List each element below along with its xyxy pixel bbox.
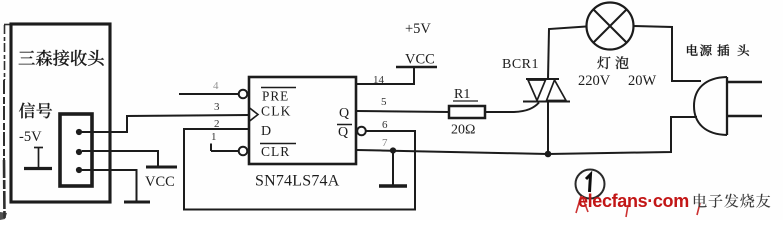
svg-text:elecfans·com: elecfans·com <box>578 191 689 211</box>
svg-text:-5V: -5V <box>19 129 42 145</box>
svg-text:Q: Q <box>339 106 349 121</box>
label 三森接收头 <box>19 50 104 66</box>
wire: CLR stub pin 1 <box>211 144 239 152</box>
connector pin 3 junction <box>76 167 82 173</box>
watermark stamp circle <box>576 170 605 199</box>
wire: connector pin3 to ground bar <box>82 170 137 201</box>
wire: VCC pin 14 <box>357 68 414 85</box>
label 灯泡 <box>597 56 628 69</box>
label 信号 (signal) <box>19 103 52 119</box>
svg-text:+5V: +5V <box>405 21 431 37</box>
connector pin 2 junction <box>76 149 82 155</box>
svg-text:PRE: PRE <box>262 89 289 104</box>
svg-text:CLK: CLK <box>261 104 292 119</box>
svg-text:1: 1 <box>211 131 217 143</box>
node: pin7 ground junction <box>390 147 396 153</box>
U1 PRE input label (active low) <box>261 88 296 104</box>
svg-text:VCC: VCC <box>145 174 175 190</box>
wire: R1 to triac gate <box>485 103 539 113</box>
resistor R1 label <box>453 87 478 102</box>
node: triac MT1 junction <box>545 151 552 158</box>
ground bar (connector side) <box>124 201 150 204</box>
wire: triac MT1 down to power rail <box>547 102 549 155</box>
svg-text:D: D <box>261 124 271 139</box>
U1 CLR input label (active low) <box>260 144 296 160</box>
connector J1 (3-pin receiver output) <box>60 114 92 186</box>
svg-text:20Ω: 20Ω <box>451 123 475 138</box>
wire: GND pin7 run to triac MT1 <box>357 150 548 154</box>
svg-text:4: 4 <box>213 80 219 92</box>
svg-text:5: 5 <box>381 96 387 108</box>
svg-text:7: 7 <box>382 137 388 149</box>
op IC U1 SN74LS74A body <box>249 77 356 164</box>
svg-text:VCC: VCC <box>405 52 435 68</box>
U1 CLR inversion bubble pin 1 <box>239 147 248 156</box>
svg-text:3: 3 <box>214 101 220 113</box>
-5V supply symbol <box>24 147 52 169</box>
svg-text:14: 14 <box>373 74 385 86</box>
wire: PRE stub pin 4 <box>179 93 239 95</box>
resistor R1 body <box>449 106 485 118</box>
svg-text:20W: 20W <box>628 73 657 89</box>
wire: connector pin2 to VCC symbol <box>82 151 158 166</box>
label 220V 20W <box>578 73 657 89</box>
svg-text:2: 2 <box>214 118 220 130</box>
U1 PRE inversion bubble pin 4 <box>239 90 248 99</box>
watermark red scribble <box>576 196 700 217</box>
triac BCR1 symbol <box>523 79 570 102</box>
wire: Q pin5 to R1 <box>357 111 449 112</box>
svg-text:SN74LS74A: SN74LS74A <box>255 173 340 190</box>
U1 Q-bar inversion bubble pin 6 <box>357 127 366 136</box>
scan corner blob <box>0 212 7 220</box>
watermark 电子发烧友 <box>694 194 771 208</box>
scan page-edge artifact line <box>4 25 11 219</box>
wire: connector pin1 to U1 CLK pin 3 <box>82 115 249 132</box>
connector pin 1 junction <box>76 129 82 135</box>
VCC power bar symbol (top) <box>396 66 437 68</box>
svg-text:6: 6 <box>382 119 388 131</box>
wire: triac MT2 up to lamp <box>548 27 586 80</box>
U1 Q-bar output label <box>337 125 352 141</box>
ground symbol (IC side) <box>379 151 407 186</box>
wire: power rail to plug bottom <box>548 117 697 154</box>
label 电源插头 <box>687 44 749 56</box>
lamp (灯泡) symbol <box>587 3 634 50</box>
svg-text:R1: R1 <box>454 87 470 102</box>
power plug (电源插头) symbol <box>694 77 762 135</box>
wire: lamp to plug top <box>634 26 702 81</box>
svg-text:220V: 220V <box>578 73 611 89</box>
wire: feedback loop Q-bar pin6 to D pin2 <box>184 129 415 210</box>
svg-text:CLR: CLR <box>261 144 290 159</box>
U1 clock edge triangle <box>249 108 258 122</box>
VCC power bar symbol (connector side) <box>146 166 177 169</box>
svg-text:Q: Q <box>338 125 348 140</box>
receiver module box (三森接收头) <box>11 24 110 202</box>
svg-text:BCR1: BCR1 <box>502 57 539 72</box>
